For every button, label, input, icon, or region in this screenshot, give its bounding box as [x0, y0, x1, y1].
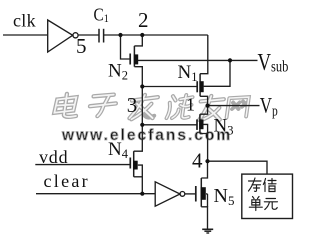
wire node3 down to node3b	[141, 87, 143, 125]
N3 channel blob	[199, 119, 203, 129]
wire N3 source to node 4	[200, 134, 208, 162]
transistor channel blobs	[133, 54, 206, 199]
char 单	[249, 197, 262, 211]
wire C1 to node 2 and top rail	[104, 34, 208, 36]
svg-text:1: 1	[186, 95, 195, 115]
wire node3b to N3 gate	[142, 124, 196, 126]
N2 channel blob	[134, 54, 138, 64]
node dot at gate tap of N2	[118, 33, 122, 37]
wire inverter to C1	[78, 34, 99, 36]
wire node1 to N3 drain	[200, 106, 208, 115]
storage unit box	[242, 174, 293, 218]
wire clear input	[36, 193, 155, 195]
wire node3 to N1 gate	[142, 86, 196, 88]
wire inverter U2 to N5 gate	[185, 193, 195, 195]
wire node2 to N2 gate	[121, 35, 130, 59]
svg-text:3: 3	[127, 93, 138, 117]
wire vdd to N4 gate	[35, 164, 129, 166]
transistor N4	[129, 158, 131, 169]
Vsub junction dot	[228, 58, 232, 62]
wire N3 bulk	[203, 124, 207, 133]
wire Vp output	[208, 105, 260, 107]
wire node3b down to N4 drain	[134, 125, 143, 151]
svg-text:www.elecfans.com: www.elecfans.com	[61, 127, 232, 144]
N1 channel blob	[199, 81, 203, 92]
node 4 dot	[205, 159, 209, 163]
char 元	[264, 199, 277, 210]
char 存	[249, 178, 262, 191]
wire N5 source to ground	[201, 207, 207, 229]
N4 channel blob	[133, 161, 138, 170]
junction dots	[118, 33, 232, 196]
transistor N3	[196, 119, 198, 129]
wire node2 to N2 drain	[134, 35, 142, 46]
watermark 电子发烧友网	[53, 94, 249, 120]
svg-text:2: 2	[138, 8, 149, 32]
node 3b dot (N3 gate tap)	[140, 123, 144, 127]
node 3 dot	[140, 84, 144, 88]
ground	[202, 229, 213, 233]
wire N5 drain to node 4	[201, 161, 207, 178]
svg-text:4: 4	[192, 148, 203, 172]
storage unit text 存储单元	[249, 178, 278, 211]
inverter U2 (clear)	[155, 182, 180, 206]
transistor N5	[195, 186, 197, 202]
wire N1 source to node 1	[200, 96, 208, 105]
inverter U1 (clk buffer)	[48, 20, 73, 52]
wire N2 source to node 3	[134, 67, 142, 87]
wire N4 bulk+source to clear node	[138, 165, 143, 194]
wire node4 to storage box	[208, 161, 268, 174]
capacitor C1	[98, 29, 100, 43]
svg-text:clear: clear	[44, 171, 90, 191]
svg-text:5: 5	[76, 34, 87, 58]
wire N5 bulk	[206, 193, 208, 195]
transistor N2	[129, 54, 131, 65]
wire top rail drop to N1 drain	[200, 35, 208, 74]
clear junction dot	[140, 192, 144, 196]
node 1 dot	[206, 104, 210, 108]
transistor N1	[196, 81, 198, 92]
node 2 dot	[140, 33, 144, 37]
svg-text:clk: clk	[13, 11, 36, 31]
svg-text:vdd: vdd	[39, 147, 68, 167]
wire Vsub to N1 bulk	[204, 60, 230, 86]
wire clk input	[3, 34, 48, 36]
wire Vsub rail (N2 bulk)	[138, 59, 258, 61]
char 储	[263, 179, 276, 192]
N5 channel blob	[201, 187, 206, 200]
